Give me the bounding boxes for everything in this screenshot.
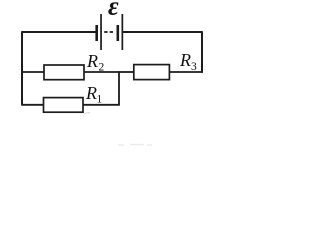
battery E1 plate negative right (thick short): [117, 25, 120, 41]
resistor R1: [44, 98, 84, 113]
svg-text:2: 2: [99, 62, 105, 74]
svg-text:ε: ε: [108, 0, 119, 21]
resistor R2: [44, 65, 84, 80]
faint artifact right of R1 box: [84, 113, 90, 114]
wire node A to R2 left: [21, 71, 44, 73]
resistor R3: [134, 65, 170, 80]
svg-text:3: 3: [191, 61, 197, 73]
battery E1 plate positive left (thin tall): [100, 14, 102, 50]
wire R3 right to right vertical: [169, 71, 203, 73]
wire node C to R1 left: [21, 104, 44, 106]
svg-text:R: R: [179, 50, 191, 70]
wire top-right horizontal: [123, 31, 202, 33]
wire R1 right to junction vertical: [83, 104, 120, 106]
faint artifact bottom center: [118, 144, 152, 147]
svg-text:1: 1: [97, 94, 103, 106]
battery E1 ellipsis dashes: [104, 31, 113, 33]
wire top-left horizontal: [22, 31, 96, 33]
battery E1 plate negative left (thick short): [95, 25, 98, 41]
wire left vertical: [21, 31, 23, 105]
svg-text:R: R: [86, 51, 98, 71]
wire node B to R3 left: [119, 71, 135, 73]
wire R2 right to node B: [84, 71, 120, 73]
wire right vertical: [201, 31, 203, 73]
wire junction vertical node B down: [118, 72, 120, 105]
svg-text:R: R: [85, 83, 97, 103]
battery E1 plate positive right (thin tall): [122, 14, 124, 50]
